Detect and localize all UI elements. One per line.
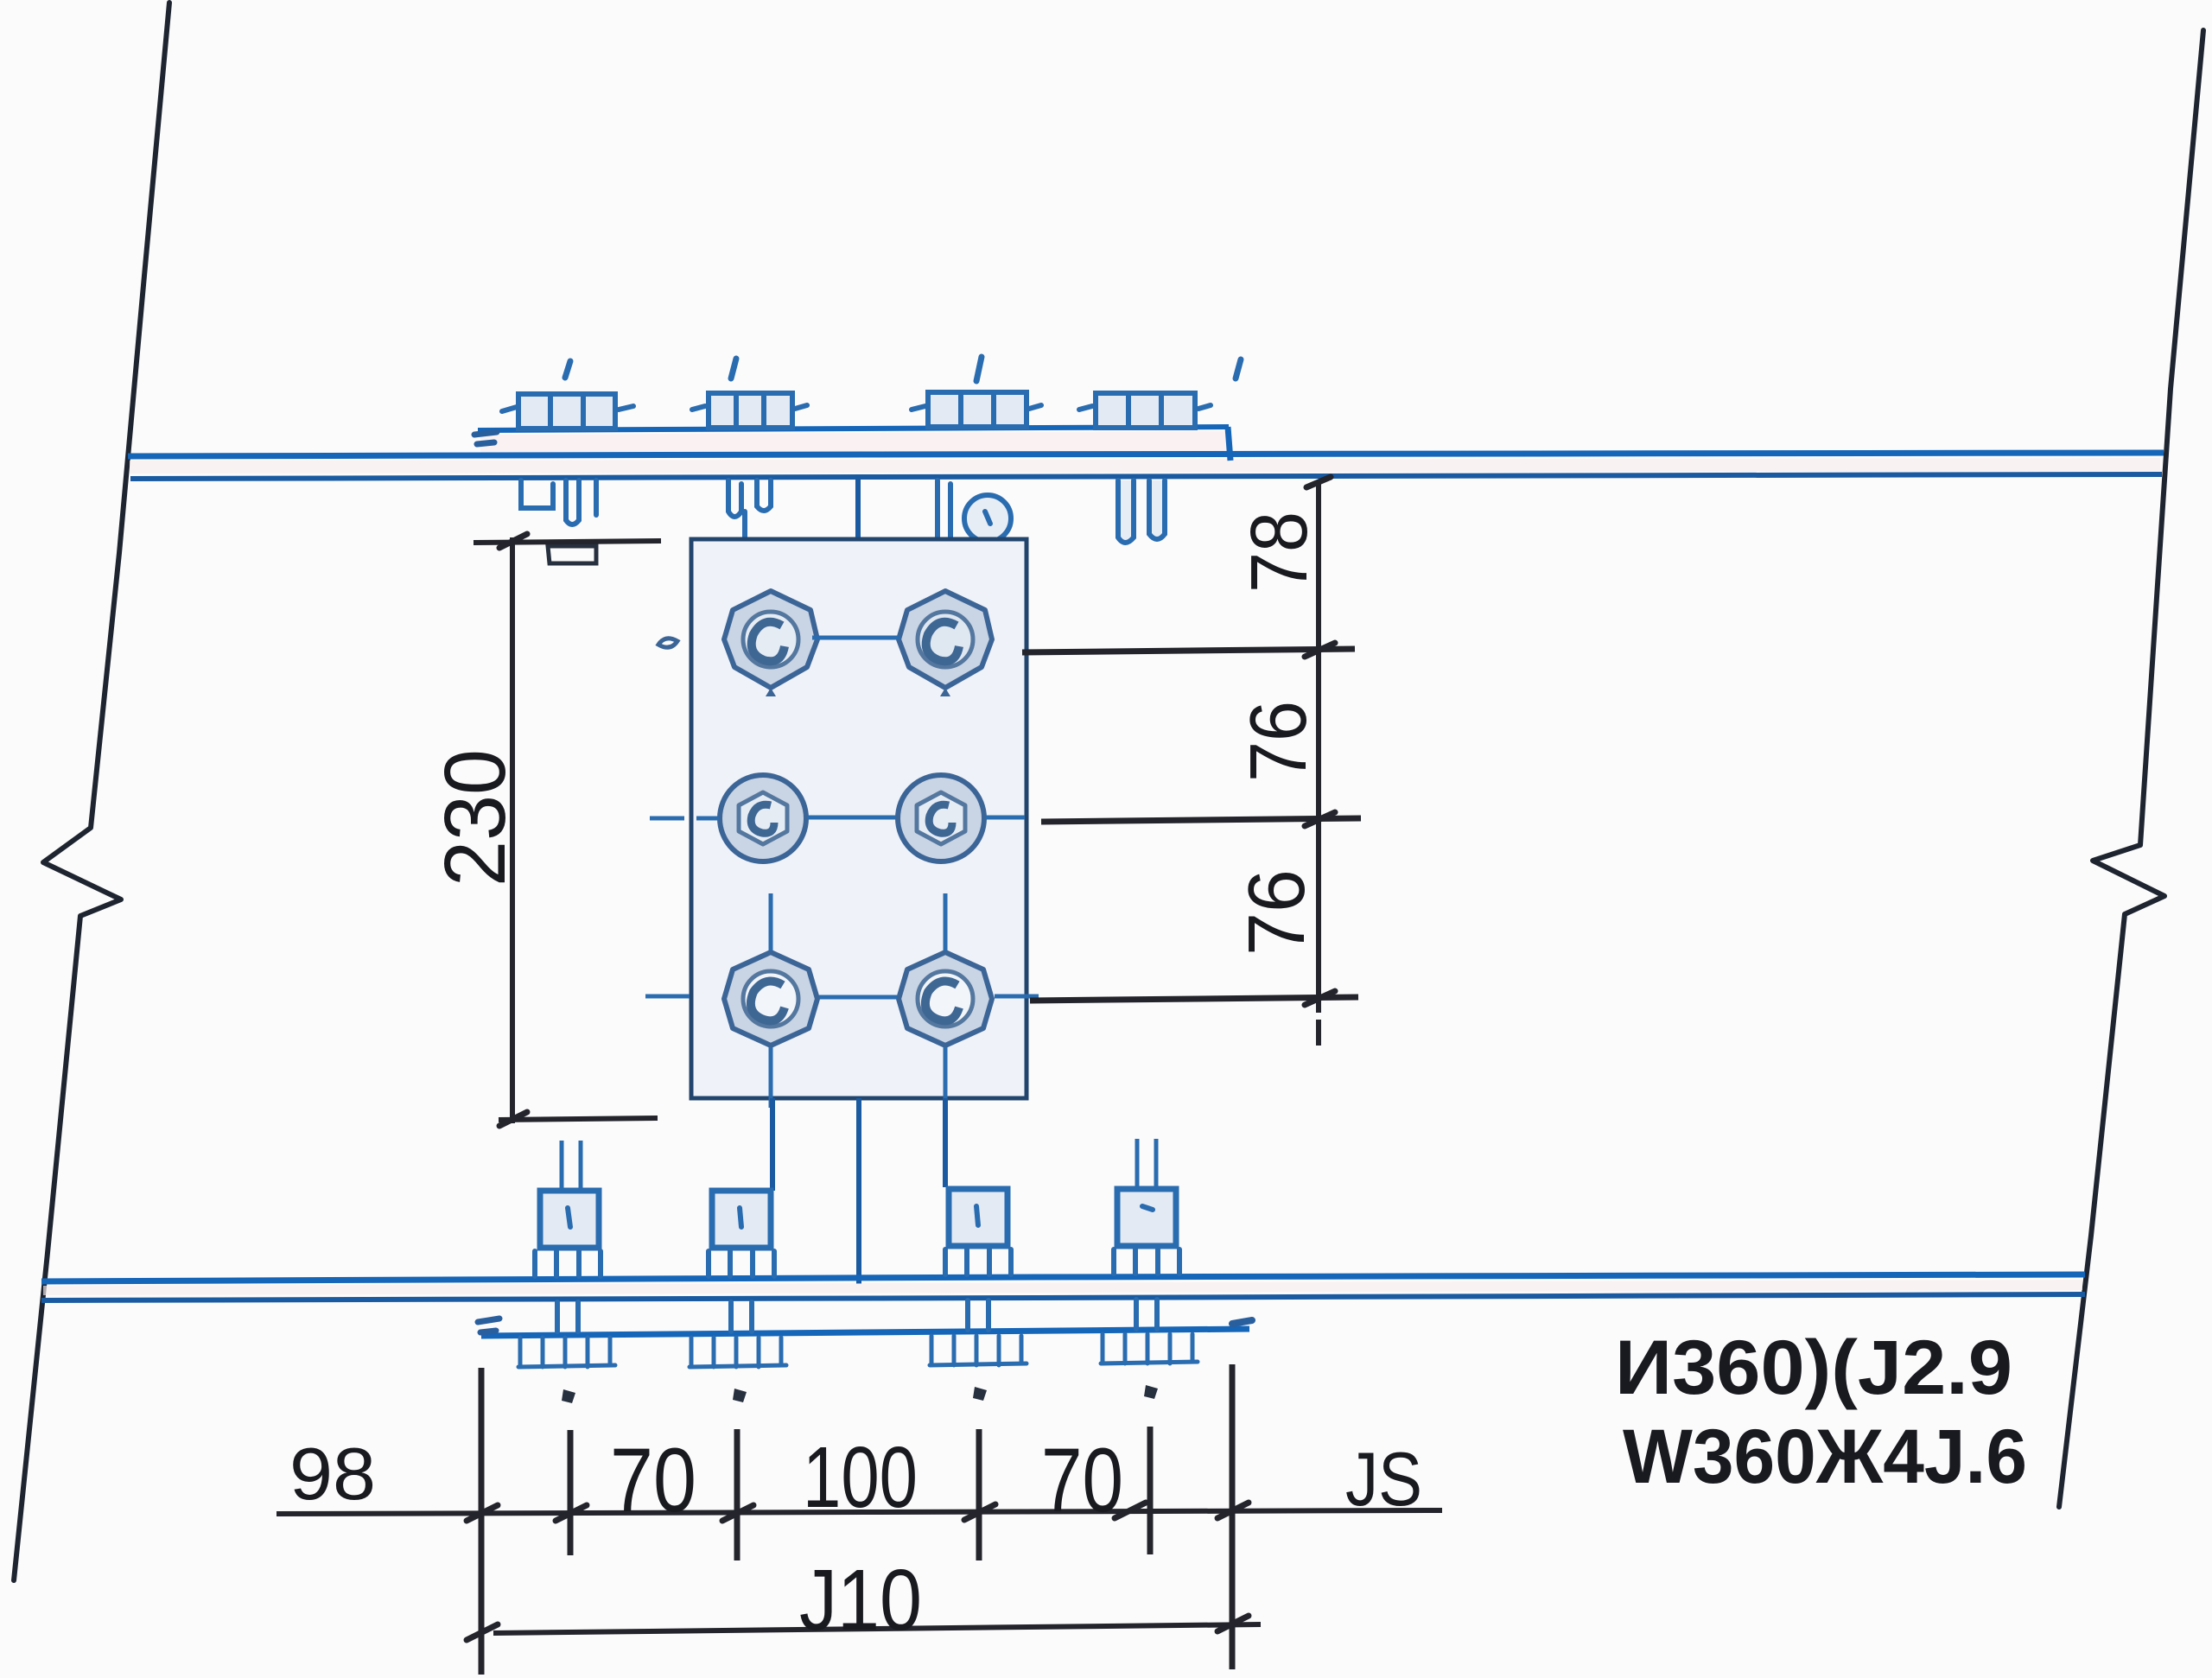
svg-text:76: 76 bbox=[1233, 701, 1323, 782]
top flange top line bbox=[128, 453, 2164, 456]
bottom bolt 4 b-blob bbox=[1144, 1385, 1158, 1399]
right dim tick row1 bbox=[1305, 643, 1335, 657]
top splice plate top edge bbox=[478, 427, 1229, 430]
row3 center dashes below bbox=[771, 1047, 945, 1108]
gauge line col2 below plate bbox=[943, 1098, 948, 1187]
slash at 1133 bbox=[964, 1504, 995, 1520]
svg-text:J10: J10 bbox=[799, 1552, 922, 1649]
bottom dim ext x1426 bbox=[1230, 1364, 1236, 1669]
top bolt 1 nut bbox=[521, 480, 596, 524]
bottom dim tick x1133 bbox=[976, 1429, 982, 1560]
bolt R3C2 bbox=[899, 952, 992, 1046]
top bolt 2 head bbox=[709, 393, 792, 428]
svg-text:78: 78 bbox=[1234, 512, 1324, 593]
row3 right blue dash bbox=[995, 995, 1039, 999]
top bolt 1 head bbox=[518, 394, 615, 429]
top bolt 4 head bbox=[1096, 393, 1195, 428]
bottom dim line row bbox=[276, 1510, 1442, 1514]
row1 left dash blob bbox=[658, 639, 677, 647]
slash at 853 bbox=[722, 1505, 753, 1521]
top bolt 1 tick bbox=[565, 361, 570, 378]
bottom bolt 2 b-blob bbox=[733, 1389, 747, 1402]
slash total right bbox=[1217, 1616, 1249, 1631]
top beam pink band bbox=[130, 458, 2160, 474]
beam gap centerline top bbox=[855, 474, 861, 540]
bottom dim tick x660 bbox=[568, 1430, 574, 1555]
bottom bolt 3 b-blob bbox=[973, 1387, 987, 1401]
bottom bolt 3 head bbox=[949, 1189, 1007, 1246]
right dim ext row2 bbox=[1041, 818, 1361, 822]
bottom bolt 2 head bbox=[712, 1191, 771, 1248]
top bolt 1 washer box bbox=[548, 546, 596, 563]
top bolt 3 nut with ring bbox=[938, 480, 1011, 553]
bottom bolt 4 head bbox=[1117, 1189, 1176, 1246]
bottom bolt 1 head bbox=[540, 1191, 599, 1248]
left break line bbox=[14, 3, 169, 1580]
right dim tick row3 bbox=[1305, 991, 1335, 1005]
right dim tick top bbox=[1306, 477, 1331, 487]
svg-text:W360Ж4J.6: W360Ж4J.6 bbox=[1623, 1413, 2027, 1499]
svg-text:70: 70 bbox=[1041, 1430, 1123, 1531]
right dim line bbox=[1316, 480, 1321, 1046]
right dim ext row3 bbox=[1030, 997, 1358, 1001]
right dim tick row2 bbox=[1305, 812, 1335, 826]
top splice plate pink fill bbox=[480, 431, 1227, 454]
svg-text:76: 76 bbox=[1231, 869, 1321, 956]
bottom bolt 1 nut rows bbox=[518, 1338, 615, 1367]
bottom bolt 4 stub bbox=[1137, 1139, 1156, 1187]
bottom bolt 1 washer bar bbox=[535, 1251, 601, 1332]
bottom bolt 4 nut rows bbox=[1101, 1334, 1198, 1363]
bottom dim tick x853 bbox=[734, 1429, 741, 1560]
top bolt 2 nut with tail bbox=[728, 480, 771, 570]
svg-text:230: 230 bbox=[427, 749, 524, 887]
row3 connector bbox=[819, 995, 897, 1000]
bottom splice plate line bbox=[481, 1329, 1249, 1336]
bottom plate left hook bbox=[478, 1319, 499, 1332]
bolt R3C1 bbox=[724, 952, 817, 1046]
bottom plate right end bbox=[1232, 1320, 1252, 1324]
slash at 660 bbox=[556, 1505, 587, 1521]
gauge line col1 below plate bbox=[770, 1098, 775, 1191]
top bolt head end dashes bbox=[502, 405, 1211, 411]
top splice plate right end bbox=[1228, 427, 1230, 461]
bottom bolt 4 washer bar bbox=[1114, 1249, 1179, 1329]
bottom bolt 3 nut rows bbox=[930, 1336, 1027, 1365]
slash at 1331 bbox=[1115, 1503, 1146, 1518]
bolt R2C1 bbox=[720, 775, 806, 861]
slash total left bbox=[467, 1624, 498, 1640]
bottom total dim line bbox=[493, 1624, 1261, 1633]
bottom dim tick x1331 bbox=[1147, 1427, 1154, 1554]
left dim tick bottom bbox=[499, 1112, 527, 1126]
right break line bbox=[2059, 30, 2203, 1507]
bolt R1C1 bbox=[724, 591, 817, 696]
bolt R1C2 bbox=[899, 591, 992, 696]
svg-text:100: 100 bbox=[803, 1429, 918, 1526]
left dim extension top bbox=[474, 541, 661, 543]
row2 connector bbox=[808, 816, 896, 820]
row1 connector bbox=[812, 636, 900, 640]
top bolt 3 tick bbox=[976, 357, 982, 381]
top flange bottom line bbox=[130, 474, 2162, 479]
left dim extension bottom bbox=[499, 1118, 658, 1120]
left dim line bbox=[510, 537, 515, 1123]
bottom bolt 1 stub bbox=[562, 1141, 581, 1189]
top bolt 4 nut bbox=[1118, 480, 1165, 543]
right dim ext row1 bbox=[1022, 649, 1355, 652]
svg-text:70: 70 bbox=[610, 1430, 696, 1531]
web splice plate bbox=[691, 539, 1027, 1098]
bottom bolt 2 washer bar bbox=[709, 1251, 774, 1332]
row3 center dashes above bbox=[771, 893, 945, 950]
bottom bolt 1 b-blob bbox=[562, 1389, 575, 1403]
slash at 1426 bbox=[1217, 1503, 1249, 1518]
svg-text:JS: JS bbox=[1345, 1436, 1422, 1522]
top bolt 2 tick bbox=[731, 359, 736, 378]
bottom dim ext x557 bbox=[479, 1368, 485, 1675]
bottom flange bottom line bbox=[41, 1294, 2085, 1300]
beam gap centerline bottom bbox=[856, 1098, 861, 1284]
bolt R2C2 bbox=[898, 775, 984, 861]
bottom beam pink band bbox=[43, 1280, 2082, 1295]
svg-text:98: 98 bbox=[289, 1433, 376, 1516]
row2 right blue dash bbox=[986, 816, 1025, 820]
top splice plate left hook bbox=[474, 432, 497, 444]
top bolt 4 tick bbox=[1236, 359, 1241, 378]
top bolt 3 head bbox=[928, 392, 1027, 427]
svg-text:И360)(J2.9: И360)(J2.9 bbox=[1615, 1324, 2012, 1410]
bottom flange top line bbox=[41, 1274, 2085, 1281]
slash at 557 bbox=[467, 1505, 498, 1521]
left dim tick top bbox=[499, 534, 527, 548]
row3 left dash bbox=[645, 995, 690, 999]
bottom bolt 2 nut rows bbox=[690, 1338, 786, 1367]
row2 left dashes bbox=[650, 817, 719, 821]
bottom bolt 3 washer bar bbox=[945, 1249, 1011, 1330]
